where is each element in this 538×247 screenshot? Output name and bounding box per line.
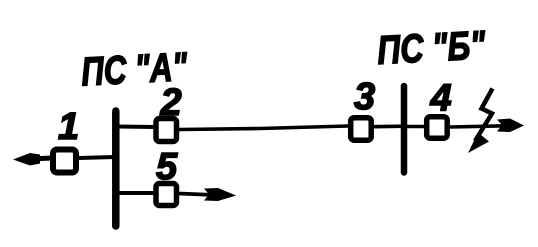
breaker Q1 (square 1) [53,150,76,173]
wire square 3 to bus B [374,124,404,128]
arrow right after square 5 [179,194,226,196]
arrow left (load off breaker 1) [30,158,52,159]
svg-text:ПС "Б": ПС "Б" [376,23,487,73]
breaker Q3 (square 3) [351,118,372,141]
wire bus A to square 5 [115,191,154,195]
breaker Q5 (square 5) [156,184,177,206]
bus bar B [401,86,408,173]
breaker Q4 (square 4) [427,117,448,139]
fault lightning bolt [475,89,493,142]
wire bus A to square 2 [115,125,155,130]
wire square1 to bus A [79,157,115,158]
bus bar A [112,111,120,226]
line wire ПС А - ПС Б [179,126,348,130]
arrow right (line end) [497,119,524,133]
wire square 4 to right arrow [450,126,505,127]
wire bus B to square 4 [404,125,425,129]
svg-text:4: 4 [430,78,452,120]
svg-text:3: 3 [354,76,375,118]
breaker Q2 (square 2) [156,119,177,142]
svg-text:1: 1 [58,106,79,148]
